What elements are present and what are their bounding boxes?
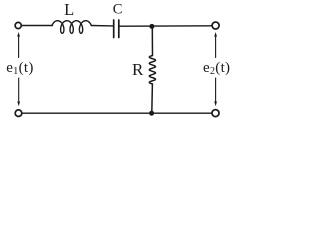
terminal top-right xyxy=(212,22,219,29)
terminal bottom-left xyxy=(15,110,22,117)
node e2 arrowhead down xyxy=(214,101,217,106)
svg-text:C: C xyxy=(113,2,123,18)
svg-text:e1(t): e1(t) xyxy=(6,60,33,77)
capacitor C xyxy=(113,20,115,38)
node e1 arrowhead up xyxy=(17,32,20,37)
terminal top-left xyxy=(15,22,21,28)
wire e2 arrow stem upper xyxy=(215,36,217,58)
resistor R xyxy=(149,56,155,85)
wire xyxy=(91,25,113,27)
wire e1 arrow stem lower xyxy=(18,78,20,104)
wire e2 arrow stem lower xyxy=(215,78,217,104)
wire resistor top lead xyxy=(151,26,153,55)
wire e1 arrow stem upper xyxy=(18,36,20,58)
wire xyxy=(120,25,213,27)
node e2 arrowhead up xyxy=(214,32,217,37)
terminal bottom-right xyxy=(212,110,219,117)
node junction bottom xyxy=(149,111,154,116)
node e1 arrowhead down xyxy=(17,101,20,106)
wire bottom xyxy=(22,112,212,114)
node junction top xyxy=(149,24,154,29)
inductor L xyxy=(52,21,91,34)
wire xyxy=(22,25,53,27)
svg-text:R: R xyxy=(132,60,144,79)
svg-text:e2(t): e2(t) xyxy=(203,60,230,77)
svg-text:L: L xyxy=(64,0,74,19)
wire resistor bottom lead xyxy=(151,84,154,113)
